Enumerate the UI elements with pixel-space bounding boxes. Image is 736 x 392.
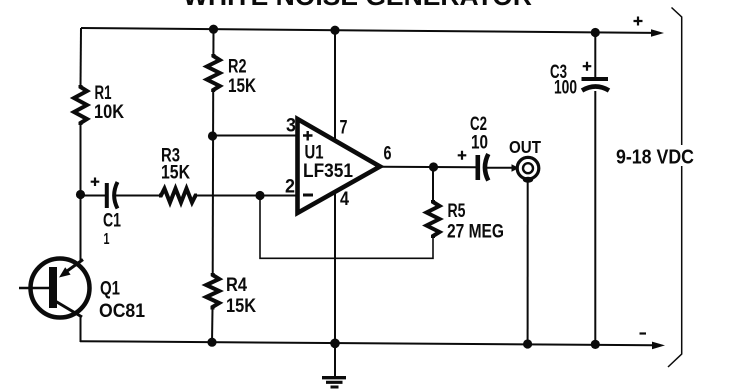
transistor Q1 bbox=[31, 259, 90, 318]
svg-text:3: 3 bbox=[286, 116, 296, 137]
svg-text:OUT: OUT bbox=[509, 137, 541, 157]
wire Q1 collector to bottom rail bbox=[80, 316, 82, 342]
node ground / bottom rail bbox=[330, 339, 340, 349]
svg-text:15K: 15K bbox=[161, 163, 190, 184]
resistor R3 bbox=[159, 189, 197, 203]
node OUT / bottom rail bbox=[523, 339, 532, 348]
svg-text:15K: 15K bbox=[228, 76, 256, 97]
node top rail / C3 bbox=[591, 28, 600, 37]
svg-text:4: 4 bbox=[340, 189, 349, 210]
wire R2/R4 column bottom (R4 to rail) bbox=[211, 309, 214, 343]
wire pin 3 bbox=[213, 135, 299, 137]
wire feedback loop (pin2 node down, right, up to R5) bbox=[260, 196, 433, 259]
wire C3 bottom lead bbox=[594, 91, 596, 345]
wire R2/R4 column top (rail to R2) bbox=[212, 29, 214, 55]
node inverting input junction bbox=[255, 191, 264, 200]
node C3 / bottom rail bbox=[591, 340, 600, 349]
capacitor C1 bbox=[91, 178, 118, 209]
label 9-18 VDC bbox=[611, 145, 701, 169]
svg-text:R2: R2 bbox=[228, 57, 247, 78]
svg-text:100: 100 bbox=[554, 78, 577, 99]
wire pin 7 bbox=[334, 30, 336, 141]
wire node to pin 2 bbox=[260, 195, 298, 197]
wire Q1 base lead bbox=[19, 287, 49, 289]
svg-text:Q1: Q1 bbox=[100, 279, 120, 300]
wire bottom rail bbox=[80, 341, 653, 345]
svg-text:WHITE NOISE GENERATOR: WHITE NOISE GENERATOR bbox=[183, 0, 532, 11]
node top rail / R2 column bbox=[209, 25, 218, 34]
wire left vertical top (rail to R1) bbox=[80, 28, 83, 86]
capacitor C2 bbox=[458, 151, 489, 181]
node output / R5 bbox=[429, 162, 438, 171]
ground bbox=[322, 343, 346, 387]
svg-text:OC81: OC81 bbox=[99, 301, 145, 322]
svg-text:9-18 VDC: 9-18 VDC bbox=[616, 147, 694, 169]
+ terminal arrow (top right) bbox=[634, 17, 665, 37]
resistor R5 bbox=[427, 200, 440, 238]
svg-text:10: 10 bbox=[471, 133, 488, 154]
svg-text:10K: 10K bbox=[94, 102, 124, 123]
svg-text:1: 1 bbox=[104, 231, 110, 248]
wire pin 6 output to C2 bbox=[379, 166, 476, 169]
wire R2/R4 column middle bbox=[212, 91, 215, 274]
wire top rail bbox=[81, 28, 653, 33]
battery bracket right bbox=[668, 8, 682, 368]
wire OUT jack to bottom rail bbox=[527, 180, 529, 345]
connector OUT jack bbox=[517, 157, 539, 182]
svg-text:27 MEG: 27 MEG bbox=[447, 222, 504, 243]
svg-text:15K: 15K bbox=[226, 296, 256, 317]
op-amp U1 bbox=[298, 119, 381, 213]
wire pin 4 bbox=[334, 192, 336, 344]
wire C2 to OUT jack with arrow bbox=[485, 164, 519, 171]
svg-text:7: 7 bbox=[340, 118, 348, 139]
node pin 3 / R2 column bbox=[208, 131, 217, 140]
svg-text:R4: R4 bbox=[226, 275, 247, 296]
svg-text:C1: C1 bbox=[103, 211, 121, 232]
wire R5 top lead to output node bbox=[432, 167, 434, 201]
wire C1 branch lead bbox=[81, 195, 107, 197]
wire left vertical (R1 to Q1 emitter) bbox=[80, 124, 82, 261]
node C1 junction bbox=[76, 190, 85, 199]
resistor R2 bbox=[207, 54, 220, 92]
resistor R1 bbox=[74, 85, 87, 125]
svg-text:R1: R1 bbox=[95, 83, 112, 104]
node R4 / bottom rail bbox=[207, 338, 216, 347]
svg-text:6: 6 bbox=[384, 144, 392, 165]
svg-text:2: 2 bbox=[285, 177, 295, 198]
wire R3 to inverting node bbox=[196, 195, 260, 197]
wire C3 top lead bbox=[594, 33, 596, 79]
node top rail / pin 7 bbox=[330, 26, 339, 35]
resistor R4 bbox=[206, 273, 219, 310]
capacitor C3 bbox=[582, 62, 610, 91]
wire C1 to R3 bbox=[114, 195, 160, 197]
- terminal arrow (bottom right) bbox=[640, 334, 666, 350]
svg-text:R5: R5 bbox=[448, 201, 466, 222]
svg-text:LF351: LF351 bbox=[303, 161, 353, 182]
